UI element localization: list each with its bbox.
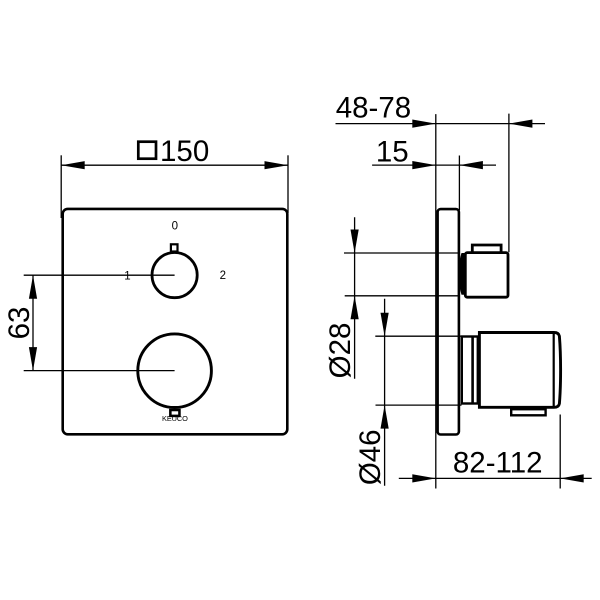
svg-text:48-78: 48-78 xyxy=(336,91,411,124)
center line upper knob xyxy=(24,274,175,276)
dim 15 dimension line xyxy=(372,164,496,166)
dim 48-78 arrow right xyxy=(509,120,533,128)
volume knob stem xyxy=(462,337,478,404)
center line lower knob xyxy=(24,370,175,372)
dim 82-112 arrow left xyxy=(412,474,436,482)
dim 63 dimension line xyxy=(32,275,34,370)
extension line wall face xyxy=(435,114,437,488)
dim 28 extension bottom xyxy=(345,295,460,297)
svg-text:15: 15 xyxy=(376,136,409,169)
dim 82-112 arrow right xyxy=(560,474,584,482)
volume knob bottom tab xyxy=(511,409,545,415)
dim 150 extension line right xyxy=(287,155,289,213)
svg-text:63: 63 xyxy=(3,307,36,340)
small knob body xyxy=(465,253,508,298)
svg-text:82-112: 82-112 xyxy=(453,447,543,480)
dim 15 arrow left xyxy=(412,161,436,169)
dim 28 arrow down xyxy=(351,230,359,254)
volume knob body xyxy=(479,333,560,408)
volume knob stem inner line xyxy=(471,337,474,404)
dim 46 extension top xyxy=(375,335,461,337)
volume knob tab xyxy=(170,410,179,416)
small knob rear collar (filled) xyxy=(458,253,465,295)
extension line plate back xyxy=(458,156,460,211)
extension line small knob face xyxy=(508,114,510,253)
volume knob cap inner line xyxy=(553,333,555,408)
dim 150 arrow left xyxy=(61,161,84,169)
dim 46 arrow up xyxy=(381,405,389,429)
dim 150 extension line left xyxy=(60,155,62,218)
svg-text:150: 150 xyxy=(160,135,209,168)
dim 48-78 arrow left xyxy=(412,120,436,128)
dim 15 arrow right xyxy=(459,161,483,169)
dim 46 extension bottom xyxy=(376,404,462,406)
dim 63 arrow down xyxy=(29,347,37,371)
dim 28 extension top xyxy=(344,252,460,254)
dim 46 dimension line xyxy=(384,299,386,486)
svg-text:2: 2 xyxy=(220,270,226,282)
volume knob circle xyxy=(138,334,212,408)
wall plate slab xyxy=(438,209,459,434)
dim 28 dimension line xyxy=(354,217,356,378)
svg-text:Ø28: Ø28 xyxy=(324,323,357,379)
dim 150 arrow right xyxy=(265,161,289,169)
dim 63 arrow up xyxy=(29,275,37,299)
extension line knob front xyxy=(559,415,561,489)
dim 150 square symbol xyxy=(138,142,156,159)
dim 28 arrow up xyxy=(351,296,359,320)
thermostat knob tab xyxy=(171,244,178,251)
dim 46 arrow down xyxy=(381,313,389,337)
dim 150 dimension line xyxy=(61,164,288,166)
svg-text:Ø46: Ø46 xyxy=(354,429,387,485)
svg-text:0: 0 xyxy=(172,221,178,233)
thermostat knob circle xyxy=(152,253,197,298)
small knob top ring xyxy=(472,245,501,253)
faceplate square xyxy=(63,209,288,434)
svg-text:1: 1 xyxy=(124,271,130,283)
dim 82-112 dimension line xyxy=(399,477,592,479)
dim 48-78 dimension line xyxy=(336,123,546,125)
svg-text:KEUCO: KEUCO xyxy=(162,414,188,423)
